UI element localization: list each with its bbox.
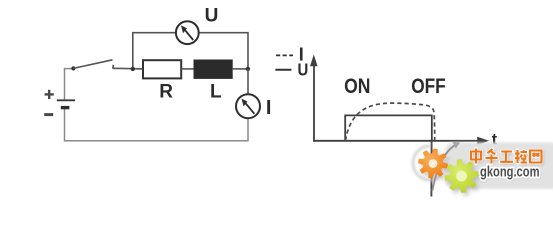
inductive spike line below axis xyxy=(430,141,432,197)
label + xyxy=(45,90,54,99)
switch S1 pole node xyxy=(71,66,75,70)
wire contact to node A xyxy=(113,67,143,70)
svg-text:R: R xyxy=(159,82,173,103)
label - xyxy=(44,113,53,116)
node B junction dot xyxy=(246,67,250,71)
svg-text:U: U xyxy=(298,60,309,80)
recovery arrow arc xyxy=(432,142,460,191)
wire bottom return xyxy=(65,108,249,141)
legend solid line U xyxy=(275,69,291,71)
wire R to L xyxy=(181,68,194,70)
inductor L body xyxy=(194,60,232,78)
graph y-axis xyxy=(310,55,318,142)
wire L to node B xyxy=(232,68,248,70)
voltage pulse U waveform xyxy=(345,115,432,141)
voltmeter U1 needle xyxy=(181,25,193,40)
node A junction dot xyxy=(131,67,135,71)
svg-text:L: L xyxy=(210,82,222,103)
wire voltmeter loop xyxy=(133,33,248,69)
wire battery to switch xyxy=(65,69,74,100)
watermark green gear xyxy=(445,159,479,193)
svg-text:ON: ON xyxy=(344,75,370,98)
battery B1 plate + xyxy=(57,99,75,101)
ammeter A1 body xyxy=(236,94,260,118)
battery B1 plate - xyxy=(61,106,70,109)
wire node B to ammeter xyxy=(247,69,249,94)
current I dashed curve xyxy=(345,103,434,141)
svg-text:I: I xyxy=(266,97,272,119)
switch S1 contact tick xyxy=(112,65,115,69)
watermark backdrop xyxy=(445,143,553,190)
ammeter A1 needle xyxy=(242,99,255,114)
watermark gray swoosh arc xyxy=(413,146,441,180)
gear shadows xyxy=(421,152,482,197)
svg-text:U: U xyxy=(205,6,219,27)
legend dashed line I xyxy=(276,54,293,56)
watermark gkong.com xyxy=(480,165,541,182)
voltmeter U1 body xyxy=(176,21,199,44)
watermark orange gear xyxy=(418,149,448,179)
svg-text:gkong.com: gkong.com xyxy=(480,165,540,181)
switch S1 blade xyxy=(73,60,112,69)
watermark chinese title 中华工控网 xyxy=(472,150,543,165)
graph t-axis xyxy=(313,137,489,145)
resistor R body xyxy=(143,60,181,78)
svg-text:OFF: OFF xyxy=(411,75,446,98)
